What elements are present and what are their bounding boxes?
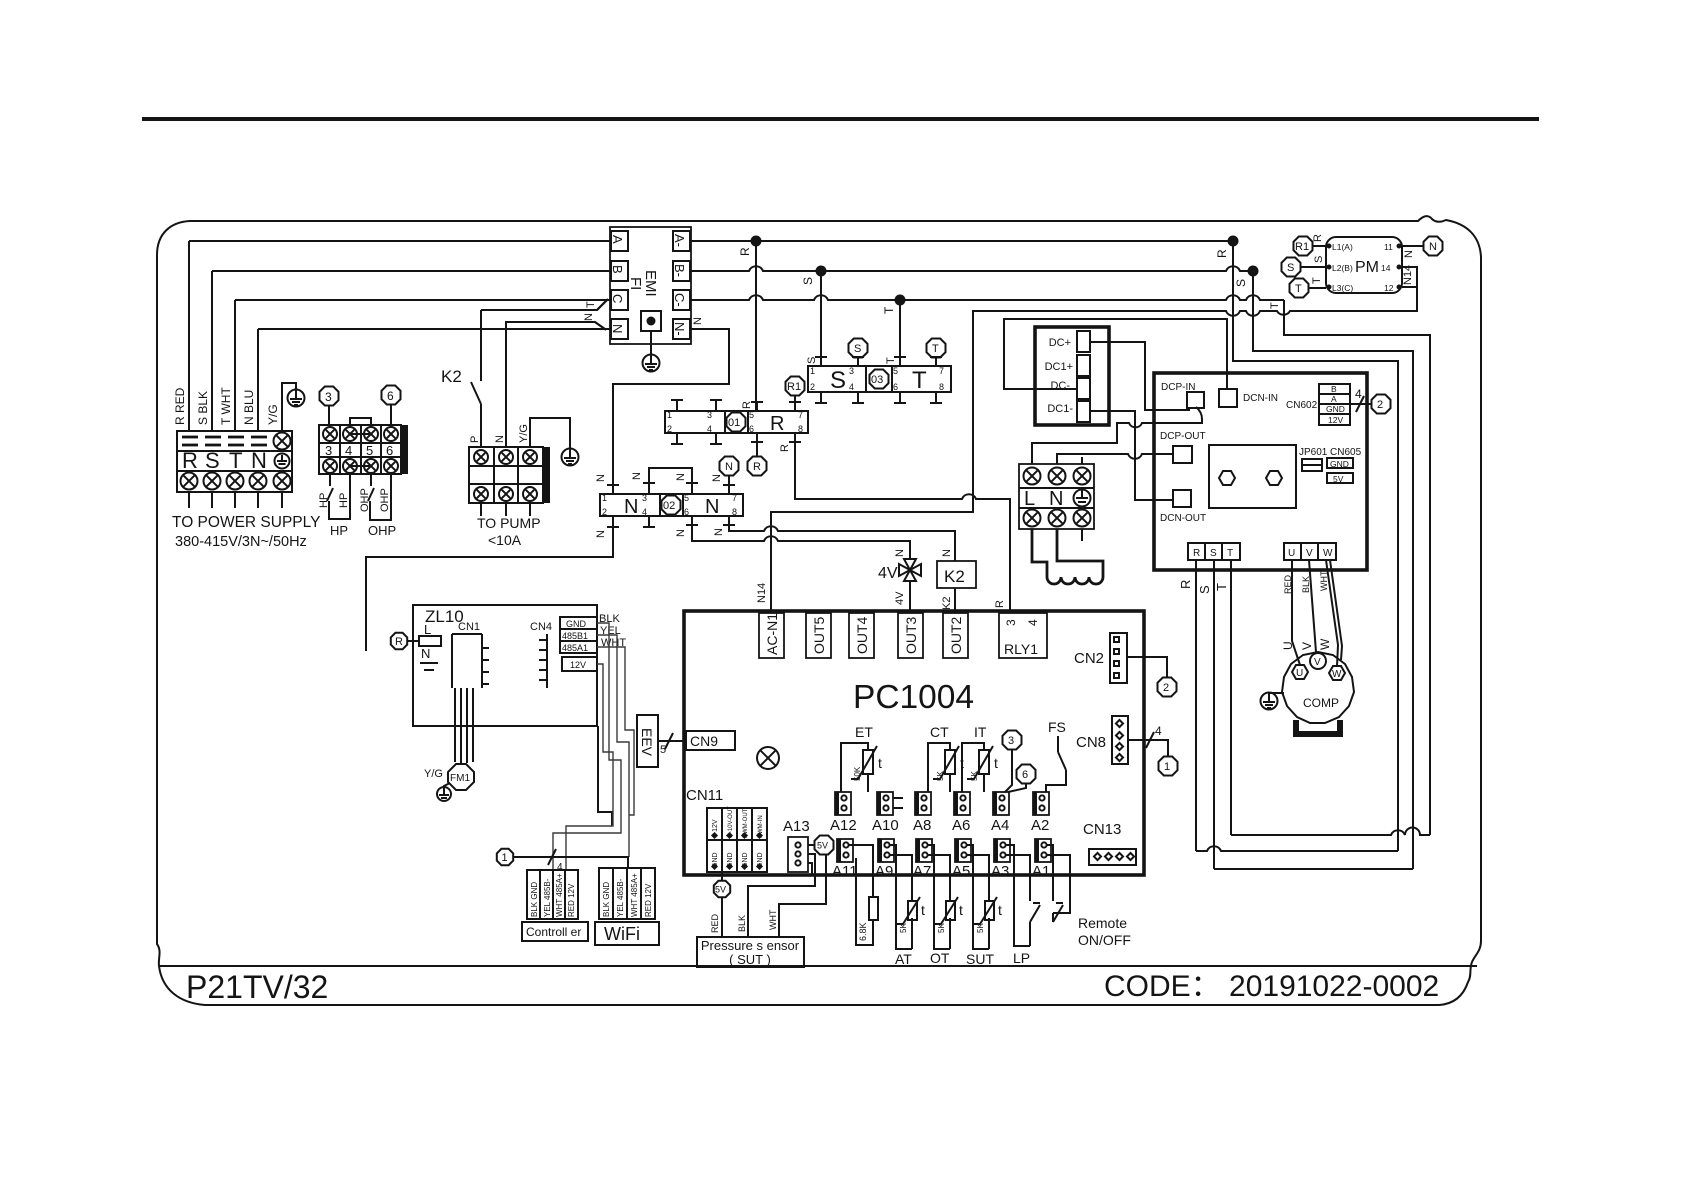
svg-text:12: 12 bbox=[1384, 283, 1394, 293]
wire pump N riser bbox=[506, 322, 605, 447]
wire 02 bridge pins 3-5 bbox=[649, 468, 692, 483]
bus N left (to EMI N) bbox=[258, 328, 611, 330]
svg-text:N: N bbox=[631, 472, 643, 480]
svg-text:5: 5 bbox=[684, 493, 689, 503]
connector A3 bbox=[991, 839, 1010, 880]
svg-text:R: R bbox=[1178, 580, 1193, 589]
pressure sensor box bbox=[697, 937, 804, 967]
svg-text:3: 3 bbox=[325, 390, 332, 404]
ZL10 box bbox=[413, 605, 597, 726]
svg-text:T: T bbox=[932, 343, 939, 355]
svg-text:4: 4 bbox=[557, 862, 563, 873]
svg-text:R: R bbox=[994, 600, 1006, 608]
svg-text:CN13: CN13 bbox=[1083, 821, 1121, 838]
connector A7 bbox=[913, 839, 932, 880]
lamp symbol bbox=[757, 747, 779, 769]
svg-text:R: R bbox=[770, 413, 784, 435]
wire A13 pin3 (WHT) bbox=[808, 863, 812, 875]
svg-text:5: 5 bbox=[660, 744, 666, 756]
PM body bbox=[1326, 237, 1402, 293]
contactor 02 body bbox=[600, 494, 743, 516]
terminal A- bbox=[673, 231, 690, 251]
terminal block TB1 body bbox=[177, 431, 292, 492]
contactor 01 pin ticks top bbox=[671, 400, 801, 411]
CN605 connector bbox=[1327, 458, 1353, 468]
COMP mount bracket bbox=[1296, 720, 1340, 734]
sensor SUT loop bbox=[967, 845, 989, 949]
net tag 5V octagon on board bbox=[815, 836, 834, 855]
svg-text:R: R bbox=[1193, 548, 1200, 559]
svg-text:LP: LP bbox=[1013, 950, 1030, 966]
svg-text:N: N bbox=[692, 317, 704, 325]
svg-text:R1: R1 bbox=[1295, 241, 1309, 253]
DC1+ terminal bbox=[1077, 355, 1090, 376]
svg-text:L3(C): L3(C) bbox=[1332, 283, 1353, 293]
comm table GND/485B1/485A1 bbox=[560, 617, 597, 653]
svg-text:OHP: OHP bbox=[368, 523, 396, 538]
svg-text:3: 3 bbox=[1004, 619, 1018, 626]
svg-text:2: 2 bbox=[1377, 399, 1383, 411]
wire K2 to OUT2 bbox=[954, 588, 956, 613]
wire S vert right drop to inverter S bbox=[1253, 271, 1413, 869]
net tag 2 right of board bbox=[1158, 678, 1177, 697]
fan FM1 bbox=[448, 764, 474, 790]
svg-text:5: 5 bbox=[366, 443, 373, 458]
svg-text:N: N bbox=[675, 473, 687, 481]
svg-text:3: 3 bbox=[1008, 735, 1014, 747]
PC1004 board outline bbox=[684, 611, 1144, 875]
tap tag T at EMI C bbox=[597, 299, 608, 310]
svg-text:A6: A6 bbox=[952, 817, 970, 834]
wire pump T branch bbox=[481, 300, 607, 310]
connector RLY1 bbox=[999, 613, 1047, 658]
svg-text:W: W bbox=[1323, 548, 1333, 559]
svg-text:YEL 485B-: YEL 485B- bbox=[543, 878, 552, 917]
svg-text:FI: FI bbox=[627, 277, 644, 290]
svg-text:N: N bbox=[675, 529, 687, 537]
svg-text:50K: 50K bbox=[853, 766, 862, 781]
switch Remote ON/OFF at A1 bbox=[1047, 845, 1070, 922]
svg-text:11: 11 bbox=[1384, 242, 1393, 252]
svg-text:BLK GND: BLK GND bbox=[602, 882, 611, 917]
svg-text:JP601: JP601 bbox=[1299, 447, 1328, 458]
svg-text:Controll er: Controll er bbox=[526, 925, 581, 939]
svg-text:5K: 5K bbox=[970, 771, 979, 781]
switch LP loop bbox=[1006, 845, 1040, 946]
wire pump Y/G to earth bbox=[530, 418, 570, 448]
svg-text:5: 5 bbox=[893, 366, 898, 376]
COMP terminal V bbox=[1310, 653, 1326, 669]
svg-text:EEV: EEV bbox=[639, 728, 655, 757]
bus R left (to EMI A) bbox=[189, 240, 611, 242]
svg-text:T: T bbox=[885, 357, 897, 364]
svg-text:4: 4 bbox=[1355, 387, 1362, 401]
screw top right bbox=[274, 433, 291, 450]
net tag R1 octagon bbox=[786, 377, 805, 396]
wire S drop to contactor 03 pin1 bbox=[820, 271, 822, 366]
svg-text:B: B bbox=[610, 265, 625, 274]
net tag T octagon above 03 pin7 bbox=[927, 339, 946, 358]
svg-text:CN605: CN605 bbox=[1330, 447, 1362, 458]
svg-text:A: A bbox=[610, 235, 625, 244]
svg-text:7: 7 bbox=[798, 410, 803, 420]
net tag T at PM bbox=[1290, 279, 1309, 298]
svg-text:S: S bbox=[1313, 256, 1325, 263]
svg-text:6: 6 bbox=[893, 382, 898, 392]
wire PM 14/12 to N14 run bbox=[771, 267, 1417, 613]
wire S tag to L2 bbox=[1301, 266, 1326, 268]
svg-text:CN9: CN9 bbox=[690, 733, 718, 749]
svg-text:BLK: BLK bbox=[1301, 576, 1311, 593]
svg-text:N: N bbox=[711, 474, 723, 482]
svg-text:N: N bbox=[595, 530, 607, 538]
COMP body circle bbox=[1282, 652, 1354, 723]
svg-text:8: 8 bbox=[939, 382, 944, 392]
svg-text:1: 1 bbox=[502, 852, 508, 864]
earth col stubs bbox=[1081, 457, 1083, 464]
contactor 02 coil circle bbox=[662, 496, 681, 515]
svg-text:A2: A2 bbox=[1031, 817, 1049, 834]
svg-text:4: 4 bbox=[1155, 724, 1162, 738]
connector A13 bbox=[788, 837, 808, 872]
svg-text:DC-: DC- bbox=[1050, 380, 1070, 392]
svg-text:S BLK: S BLK bbox=[196, 391, 210, 425]
svg-text:OUT5: OUT5 bbox=[811, 616, 827, 654]
terminal N bbox=[611, 319, 628, 339]
inverter output terminal U V W bbox=[1284, 543, 1336, 560]
connector CN2 bbox=[1110, 633, 1127, 683]
resistor 6.8K loop at A11 bbox=[849, 845, 873, 945]
earth symbol at Y/G bbox=[288, 390, 305, 407]
svg-text:S: S bbox=[1197, 585, 1212, 594]
svg-text:T: T bbox=[882, 306, 896, 314]
svg-text:GND: GND bbox=[1330, 459, 1349, 469]
outer drawing border (torn-corner rounded frame) bbox=[157, 216, 1481, 1005]
svg-text:T: T bbox=[1214, 583, 1229, 591]
net tag 6 octagon bbox=[382, 386, 401, 405]
svg-text:AC-N1: AC-N1 bbox=[764, 613, 780, 655]
svg-text:TO POWER SUPPLY: TO POWER SUPPLY bbox=[172, 514, 320, 531]
svg-text:B: B bbox=[1331, 384, 1337, 394]
svg-text:N: N bbox=[1429, 241, 1437, 253]
svg-text:CN8: CN8 bbox=[1076, 734, 1106, 751]
bus T left (to EMI C) bbox=[235, 299, 611, 301]
connector AC-N1 bbox=[759, 613, 784, 658]
wire R riser bbox=[188, 241, 190, 431]
connector CN9 bbox=[686, 731, 735, 750]
svg-text:TO PUMP: TO PUMP bbox=[477, 515, 541, 531]
svg-text:DC+: DC+ bbox=[1049, 337, 1071, 349]
svg-text:4: 4 bbox=[345, 443, 352, 458]
svg-text:485B1: 485B1 bbox=[562, 631, 588, 641]
wire tag3 to A4 bbox=[1005, 750, 1012, 792]
contactor 01 pin ticks bottom bbox=[671, 433, 801, 444]
wire DCP-IN exit to L bbox=[1032, 407, 1202, 464]
node R junction 2 bbox=[1228, 236, 1239, 247]
svg-text:OT: OT bbox=[930, 950, 950, 966]
svg-text:IT: IT bbox=[974, 724, 987, 740]
pump screws bbox=[474, 450, 488, 464]
svg-text:CODE： 20191022-0002: CODE： 20191022-0002 bbox=[1104, 970, 1439, 1003]
svg-text:V: V bbox=[1300, 642, 1314, 650]
connector OUT3 bbox=[898, 613, 923, 658]
svg-text:S: S bbox=[205, 448, 220, 473]
svg-text:3: 3 bbox=[642, 493, 647, 503]
svg-text:YEL 485B-: YEL 485B- bbox=[616, 878, 625, 917]
contactor 03 body bbox=[808, 366, 951, 392]
svg-text:CT: CT bbox=[930, 724, 949, 740]
svg-text:AT: AT bbox=[895, 951, 912, 967]
wire R vert right drop to inverter R bbox=[1233, 241, 1398, 851]
wire EEV to CN9 bbox=[658, 740, 686, 742]
svg-text:S: S bbox=[801, 277, 815, 285]
wire inverter V to comp bbox=[1309, 560, 1316, 652]
svg-text:N14: N14 bbox=[1402, 265, 1414, 285]
terminal B- bbox=[673, 261, 690, 281]
svg-text:N: N bbox=[421, 646, 430, 661]
svg-text:N: N bbox=[494, 435, 506, 443]
svg-text:( SUT ): ( SUT ) bbox=[729, 952, 771, 967]
svg-text:4V: 4V bbox=[894, 591, 906, 605]
wire inverter W to comp bbox=[1326, 560, 1338, 666]
net tag 5V octagon below board bbox=[714, 881, 730, 897]
strip screws top bbox=[323, 427, 337, 441]
FM1 earth stem bbox=[444, 783, 450, 788]
wire DCP-OUT to N bbox=[1057, 454, 1173, 464]
connector CN13 bbox=[1089, 849, 1136, 865]
connector CN11 block bbox=[707, 808, 767, 872]
DCN-IN pad bbox=[1219, 389, 1237, 407]
svg-text:6: 6 bbox=[684, 507, 689, 517]
wire CN602 to tag 2 bbox=[1350, 403, 1372, 405]
net tag S octagon above 03 pin3 bbox=[849, 339, 868, 358]
svg-text:t: t bbox=[921, 902, 925, 918]
wire tag3 to strip bbox=[328, 405, 330, 425]
svg-text:SUT: SUT bbox=[966, 951, 994, 967]
LN block body bbox=[1019, 464, 1094, 529]
svg-text:ET: ET bbox=[855, 724, 873, 740]
wire bottom S run bbox=[1214, 868, 1413, 870]
svg-text:N-: N- bbox=[672, 322, 687, 336]
wire 4V to OUT3 bbox=[909, 581, 911, 613]
node T junction bbox=[895, 295, 906, 306]
wire inverter T down bbox=[1230, 560, 1232, 835]
svg-text:OUT2: OUT2 bbox=[948, 616, 964, 654]
net tag 3 octagon bbox=[320, 387, 339, 406]
svg-text:P: P bbox=[469, 436, 481, 443]
svg-text:WHT: WHT bbox=[1319, 570, 1329, 591]
svg-text:DCP-OUT: DCP-OUT bbox=[1160, 431, 1206, 442]
strip right black bar bbox=[401, 425, 408, 474]
svg-text:S: S bbox=[854, 343, 861, 355]
svg-text:L: L bbox=[1024, 488, 1035, 510]
COMP terminal W bbox=[1329, 666, 1345, 680]
svg-text:5K: 5K bbox=[899, 923, 908, 933]
svg-text:U: U bbox=[1296, 668, 1303, 679]
svg-text:5: 5 bbox=[749, 410, 754, 420]
PM pin dots bbox=[1327, 244, 1332, 249]
svg-text:Pressure s ensor: Pressure s ensor bbox=[701, 938, 800, 953]
wire R drop to contactor 01 pin5 bbox=[755, 241, 757, 411]
svg-text:N: N bbox=[595, 474, 607, 482]
svg-text:OHP: OHP bbox=[379, 488, 391, 512]
svg-text:4: 4 bbox=[849, 382, 854, 392]
wire N riser bbox=[257, 329, 259, 431]
svg-text:N: N bbox=[624, 496, 638, 518]
svg-text:A3: A3 bbox=[991, 863, 1009, 880]
controller pin columns bbox=[527, 870, 578, 919]
svg-text:RED: RED bbox=[1283, 574, 1293, 594]
svg-text:P21TV/32: P21TV/32 bbox=[186, 969, 328, 1005]
svg-text:A5: A5 bbox=[952, 863, 970, 880]
earth mark in LN block bbox=[1074, 490, 1091, 507]
connector A5 bbox=[952, 839, 971, 880]
svg-text:BLK: BLK bbox=[737, 915, 747, 932]
bridge 4-5 top row bbox=[350, 433, 371, 435]
svg-text:W: W bbox=[1332, 669, 1342, 680]
svg-text:R: R bbox=[779, 444, 791, 452]
svg-text:S: S bbox=[830, 367, 846, 394]
net tag 6 octagon on board bbox=[1017, 765, 1036, 784]
svg-text:5V: 5V bbox=[715, 885, 726, 895]
wire T vert right drop to inverter T bbox=[1284, 300, 1430, 835]
EMI earth stem bbox=[650, 331, 652, 355]
net tag S at PM bbox=[1282, 258, 1301, 277]
svg-text:T: T bbox=[1295, 283, 1302, 295]
pump block body bbox=[469, 447, 543, 503]
svg-text:R: R bbox=[395, 636, 403, 648]
top rule line bbox=[142, 117, 1539, 121]
svg-text:A4: A4 bbox=[991, 817, 1009, 834]
svg-text:8: 8 bbox=[732, 507, 737, 517]
wire bottom R run bbox=[1196, 846, 1398, 851]
svg-text:2: 2 bbox=[1163, 682, 1169, 694]
wire comm 12V staircase bbox=[566, 664, 613, 870]
svg-text:T: T bbox=[1311, 277, 1323, 284]
svg-text:5K: 5K bbox=[976, 923, 985, 933]
EMI ground terminal bbox=[641, 311, 661, 331]
inductor coil under LN block bbox=[1032, 529, 1103, 584]
svg-text:t: t bbox=[878, 755, 882, 771]
svg-text:S: S bbox=[1234, 279, 1248, 287]
svg-text:WiFi: WiFi bbox=[604, 924, 640, 944]
svg-text:DCN-IN: DCN-IN bbox=[1243, 393, 1278, 404]
svg-text:T: T bbox=[585, 301, 597, 308]
bus T right with hops bbox=[690, 295, 1284, 300]
wire inverter U to comp bbox=[1292, 560, 1300, 665]
svg-text:WHT 485A+: WHT 485A+ bbox=[555, 873, 564, 917]
svg-text:N14: N14 bbox=[756, 583, 768, 603]
svg-text:B-: B- bbox=[672, 264, 687, 277]
svg-text:DCN-OUT: DCN-OUT bbox=[1160, 513, 1206, 524]
svg-text:OUT3: OUT3 bbox=[903, 616, 919, 654]
svg-text:N BLU: N BLU bbox=[242, 390, 256, 425]
thermistor IT loop bbox=[962, 743, 984, 792]
svg-text:RED 12V: RED 12V bbox=[567, 883, 576, 917]
svg-text:OUT4: OUT4 bbox=[854, 616, 870, 654]
node S junction 2 bbox=[1248, 266, 1259, 277]
svg-text:CN1: CN1 bbox=[458, 621, 480, 633]
svg-text:A-: A- bbox=[672, 234, 687, 247]
wire S riser bbox=[211, 271, 213, 431]
svg-text:14: 14 bbox=[1381, 263, 1391, 273]
inverter input terminal R S T bbox=[1188, 543, 1240, 560]
svg-text:T: T bbox=[229, 448, 242, 473]
wire DC- loop to DCN-IN bbox=[1004, 319, 1227, 389]
svg-text:Y/G: Y/G bbox=[424, 768, 443, 780]
svg-text:Remote: Remote bbox=[1078, 915, 1127, 931]
svg-text:U: U bbox=[1281, 641, 1295, 650]
svg-text:12V: 12V bbox=[1328, 415, 1343, 425]
node R junction 1 bbox=[751, 236, 762, 247]
svg-text:N: N bbox=[1403, 250, 1415, 258]
wifi pin columns bbox=[599, 868, 655, 919]
wire 01 pin6 to R tag bbox=[756, 442, 758, 456]
earth symbol EMI bbox=[643, 355, 660, 372]
wire comm BLK staircase bbox=[553, 623, 621, 870]
svg-text:T: T bbox=[1227, 548, 1233, 559]
connector A4 bbox=[991, 792, 1009, 834]
svg-text:6: 6 bbox=[749, 424, 754, 434]
svg-text:N: N bbox=[610, 324, 625, 333]
net tag 1 octagon at controller bbox=[497, 849, 513, 865]
svg-text:PM: PM bbox=[1355, 259, 1379, 276]
wire 02 pin8 to K2 coil (N line) bbox=[729, 525, 955, 561]
terminal C bbox=[611, 290, 628, 310]
DC+ terminal bbox=[1077, 331, 1090, 352]
svg-text:t: t bbox=[998, 902, 1002, 918]
wire T riser bbox=[234, 300, 236, 431]
svg-text:A10: A10 bbox=[872, 817, 899, 834]
svg-text:CN11: CN11 bbox=[686, 787, 723, 804]
svg-text:S: S bbox=[1210, 548, 1217, 559]
wire CN8 to tag 1 bbox=[1128, 740, 1168, 756]
svg-text:N: N bbox=[713, 528, 725, 536]
module screw hex right bbox=[1266, 471, 1282, 485]
external bridge over cols 4-5 bbox=[350, 418, 371, 425]
svg-text:A8: A8 bbox=[913, 817, 931, 834]
comm table 12V bbox=[562, 657, 597, 671]
svg-text:4: 4 bbox=[707, 424, 712, 434]
net tag R1 at PM bbox=[1294, 237, 1313, 256]
wire CN1 bundle to FM1 bbox=[455, 688, 473, 763]
4V valve symbol bbox=[899, 559, 921, 581]
K2 coil box bbox=[937, 561, 976, 588]
wifi box bbox=[595, 922, 659, 945]
wire tag6 to A4 bbox=[1008, 784, 1026, 792]
svg-text:4: 4 bbox=[642, 507, 647, 517]
svg-text:BLK GND: BLK GND bbox=[530, 882, 539, 917]
terminal N- bbox=[673, 319, 690, 339]
K2 pump switch bbox=[471, 310, 481, 447]
thermistor ET loop bbox=[841, 743, 868, 792]
wire 5V tag down (WHT) bbox=[779, 855, 826, 937]
net tag 1 right of board bbox=[1159, 757, 1178, 776]
wire inverter S down bbox=[1213, 560, 1215, 869]
COMP terminal U bbox=[1292, 665, 1308, 679]
pump bottom stubs bbox=[480, 503, 482, 516]
wire tag1 to WiFi bbox=[513, 857, 628, 868]
svg-text:GND: GND bbox=[1326, 404, 1345, 414]
screws bottom row bbox=[181, 473, 198, 490]
svg-text:WHT 485A+: WHT 485A+ bbox=[630, 873, 639, 917]
svg-text:Y/G: Y/G bbox=[266, 404, 280, 425]
svg-text:FM1: FM1 bbox=[450, 773, 470, 784]
wire PM 11 to N tag bbox=[1402, 245, 1423, 247]
svg-text:6: 6 bbox=[1022, 769, 1028, 781]
svg-text:3: 3 bbox=[325, 443, 332, 458]
svg-text:N: N bbox=[705, 496, 719, 518]
